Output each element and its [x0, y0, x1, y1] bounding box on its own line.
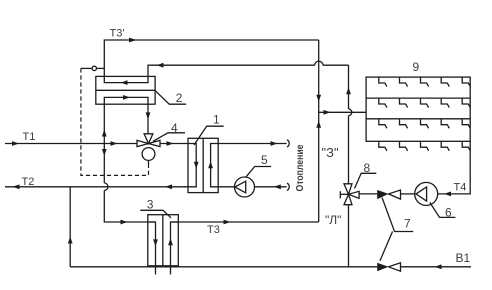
check valve 7 upper: [377, 190, 400, 199]
pipe vertical x=70.2 T2 down to bottom line: [68, 187, 73, 267]
pipe valve 4 to HX1: [160, 141, 188, 146]
pipe T1: [5, 141, 137, 146]
label 8: [355, 161, 377, 189]
air heater 9: [366, 77, 470, 141]
label 6: [430, 202, 456, 219]
svg-text:9: 9: [413, 60, 420, 74]
svg-text:7: 7: [404, 217, 411, 231]
label 2: [155, 90, 186, 105]
pipe vertical x=104.3 HX2 to T1: [102, 104, 107, 143]
control line dashed (sensor to valve 4 actuator): [81, 68, 149, 175]
pipe riser "З" x=348.5 (valve 8 up to feed corner) with hop over y=112.3: [346, 65, 352, 184]
pipe HX2 right down to valve 4: [146, 104, 151, 134]
label 1: [194, 113, 224, 146]
svg-text:1: 1: [213, 113, 220, 127]
label 5: [246, 153, 272, 178]
sensor on T3' pipe: [81, 66, 104, 70]
svg-text:3: 3: [147, 197, 154, 211]
svg-text:T3: T3: [207, 224, 220, 236]
pipe T3 (HX3 to riser): [171, 220, 319, 225]
pipe riser x=318.7 (from T3 up to junction and T3' corner): [316, 40, 321, 222]
pipe T4 (air heater down to pump 6): [438, 141, 471, 196]
pipe T2: [5, 184, 188, 189]
pipe vertical x=104.3 T1 down to HX3 entry, hop over T2: [102, 144, 156, 225]
pipe bottom line B1: [70, 264, 471, 269]
pipe valve 8 to check valve 7 to pump 6: [359, 193, 415, 195]
pump 6: [415, 182, 438, 205]
svg-text:T2: T2: [22, 176, 35, 188]
svg-text:"З": "З": [322, 145, 339, 160]
heat exchanger 1: [188, 138, 218, 192]
pump 5: [235, 177, 255, 197]
svg-text:"Л": "Л": [325, 213, 341, 227]
valve 8 (three-way seasonal): [340, 184, 359, 205]
heat exchanger 2: [96, 76, 155, 104]
pipe T3' (top line from HX2 to right riser): [104, 38, 318, 77]
svg-text:2: 2: [176, 91, 183, 105]
svg-text:B1: B1: [456, 251, 471, 265]
pipe HX2 feed line y=65.2 with hop over riser: [148, 61, 349, 76]
valve 4 (three-way with actuator): [137, 134, 160, 161]
svg-text:5: 5: [261, 153, 268, 167]
label 4: [153, 121, 185, 141]
check valve 7 lower: [377, 263, 400, 271]
svg-text:T3': T3': [110, 28, 125, 40]
pipe heating return (break to pump 5 to HX1): [218, 183, 289, 190]
label 7: [380, 198, 413, 261]
svg-text:T4: T4: [454, 182, 467, 194]
svg-text:Отопление: Отопление: [294, 144, 306, 191]
svg-text:T1: T1: [23, 131, 36, 143]
pipe heating supply (HX1 to break): [218, 140, 289, 147]
air heater 9 hook fins: [379, 77, 471, 151]
pipe "Л" riser below valve 8 to bottom line: [348, 205, 350, 267]
heat exchanger 3: [148, 215, 179, 275]
pipe to air heater 9 (junction to box left): [319, 110, 366, 115]
label 3: [140, 197, 171, 218]
